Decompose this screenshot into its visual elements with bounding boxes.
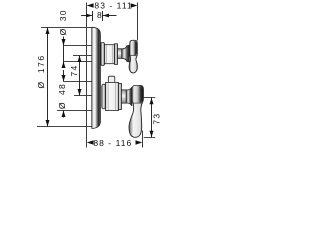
svg-text:Ø 176: Ø 176 [36,54,46,88]
svg-text:73: 73 [152,113,162,125]
svg-text:8: 8 [97,10,102,20]
svg-text:Ø 48: Ø 48 [57,83,67,109]
svg-text:83 - 111: 83 - 111 [94,1,132,11]
svg-text:Ø 30: Ø 30 [58,9,68,35]
svg-text:74: 74 [69,64,79,76]
svg-text:88 - 116: 88 - 116 [93,138,132,148]
